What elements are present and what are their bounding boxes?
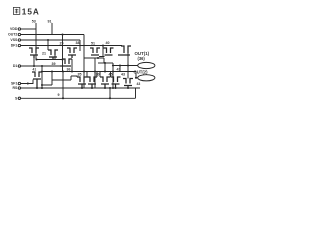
svg-text:43: 43: [121, 72, 125, 76]
svg-text:51: 51: [91, 41, 95, 45]
transistor Q3: [67, 48, 77, 58]
node junction 42,66: [41, 65, 43, 67]
wire VSS bus: [21, 39, 80, 41]
svg-text:39: 39: [52, 62, 56, 66]
node junction 42,71.5: [41, 70, 43, 72]
wire row2 feeds: [87, 72, 111, 78]
svg-text:38: 38: [76, 41, 80, 45]
svg-text:SF1: SF1: [11, 82, 17, 86]
wire x104 drop: [103, 58, 105, 63]
node junction 52,71.5: [51, 70, 53, 72]
svg-text:D1: D1: [13, 64, 18, 68]
arrowhead SF1: [27, 82, 31, 84]
node junction OUT2 x62: [61, 33, 63, 35]
svg-text:15A: 15A: [22, 8, 40, 17]
node junction 105,71.5: [104, 70, 106, 72]
node junction 128,65.5: [127, 64, 129, 66]
wire SF1: [21, 80, 33, 84]
node junction RS x113: [112, 87, 114, 89]
wire x113 long vertical: [112, 63, 114, 88]
transistor Q6: [118, 46, 131, 55]
transistor QC: [87, 77, 97, 88]
node junction 95,71.5: [94, 70, 96, 72]
wire x120 drop: [119, 66, 121, 72]
node junction QD gate RS: [104, 87, 106, 89]
wire shared gate feed x103: [99, 46, 105, 57]
svg-text:9: 9: [58, 93, 60, 97]
transistor QD: [100, 77, 110, 88]
wire Q6 source down: [127, 53, 129, 79]
svg-text:VSS: VSS: [10, 38, 18, 42]
transistor Q51: [90, 48, 100, 55]
node junction y58 x98: [97, 57, 99, 59]
svg-text:35: 35: [78, 72, 82, 76]
wire mid bus y72: [42, 71, 136, 73]
node junction 63,98.3: [62, 97, 64, 99]
title glyph TU (figure): [13, 7, 19, 14]
svg-text:41: 41: [33, 68, 37, 72]
wire VSS drop: [79, 40, 81, 51]
svg-text:53: 53: [32, 19, 36, 23]
svg-text:DF1: DF1: [11, 44, 18, 48]
svg-text:VDD: VDD: [10, 27, 18, 31]
svg-text:40: 40: [106, 41, 110, 45]
wire x95 vertical: [94, 58, 96, 88]
wire riser x110: [109, 88, 111, 98]
svg-text:36: 36: [67, 68, 71, 72]
node junction x42 y85: [41, 84, 43, 86]
svg-text:RS: RS: [13, 86, 19, 90]
node junction 34,66: [33, 65, 35, 67]
node junction QF gate RS: [127, 87, 129, 89]
node junction QB gate RS: [81, 87, 83, 89]
svg-text:41: 41: [117, 67, 121, 71]
svg-text:21: 21: [42, 52, 46, 56]
transistor QB: [77, 77, 87, 88]
node junction QE gate RS: [114, 87, 116, 89]
wire y59.5 source bus: [36, 59, 63, 61]
node junction y59.5 right: [61, 58, 63, 60]
svg-text:S: S: [15, 97, 18, 101]
node junction RS x110: [109, 87, 111, 89]
wire right riser: [135, 88, 137, 98]
svg-text:43: 43: [137, 82, 141, 86]
wire VDD bus: [21, 28, 36, 30]
wire Q39 right hook down: [71, 59, 73, 72]
wire Q2 source down: [54, 55, 56, 60]
node junction 136,77.8: [135, 77, 137, 79]
wire x62 long vertical: [62, 35, 64, 73]
wire to output pad 2: [136, 72, 138, 78]
output pad oval 2: [138, 75, 155, 81]
svg-text:29: 29: [60, 42, 64, 46]
node junction 120,65.5: [119, 64, 121, 66]
node junction 37,88: [36, 87, 38, 89]
wire DF1 bus: [21, 45, 122, 47]
transistor Q40: [104, 48, 114, 55]
wire label 91 lead: [51, 23, 53, 35]
wire x105 drop: [104, 63, 106, 72]
svg-text:(36): (36): [138, 56, 146, 61]
svg-text:91: 91: [48, 19, 52, 23]
node junction 84,71.5: [83, 70, 85, 72]
node junction x72 mid: [71, 70, 73, 72]
transistor Q41: [32, 72, 42, 88]
svg-text:30: 30: [96, 72, 100, 76]
wire y58 bridge: [84, 57, 104, 59]
wire VDD drop with label 53 lead: [35, 23, 37, 48]
node junction 113,71.5: [112, 70, 114, 72]
transistor QF: [123, 79, 133, 89]
wire y63 bridge: [98, 62, 113, 64]
node junction QC gate RS: [91, 87, 93, 89]
wire to output pad 1: [113, 65, 138, 67]
wire D1 bus: [21, 65, 63, 67]
wire x42 full vertical: [41, 66, 43, 88]
wire DF1 end to Q6: [121, 45, 123, 48]
transistor QE: [111, 77, 121, 88]
node junction DF1 x103: [102, 44, 104, 46]
node junction 63,71.5: [62, 70, 64, 72]
wire stepped: [42, 72, 77, 86]
node junction S x110: [109, 97, 111, 99]
wire RS bus: [21, 87, 140, 89]
wire OUT2 bus: [21, 34, 84, 36]
node junction 105,63: [104, 62, 106, 64]
wire x48 drop: [47, 40, 49, 50]
svg-text:OUT2: OUT2: [8, 33, 17, 37]
output pad oval 1: [138, 62, 155, 68]
transistor Q2: [48, 50, 58, 59]
wire Q21 source down: [35, 53, 37, 60]
wire x84 long vertical: [83, 35, 85, 89]
wire Q21 gate to D1: [33, 58, 35, 66]
node junction VSS x48: [47, 39, 49, 41]
wire S bus: [21, 97, 136, 99]
node junction 42,88: [41, 87, 43, 89]
transistor Q39: [60, 59, 72, 66]
wire x63 vertical: [62, 72, 64, 99]
transistor Q21: [29, 48, 39, 58]
node junction 113,65.5: [112, 64, 114, 66]
node junction y59.5 left: [35, 58, 37, 60]
